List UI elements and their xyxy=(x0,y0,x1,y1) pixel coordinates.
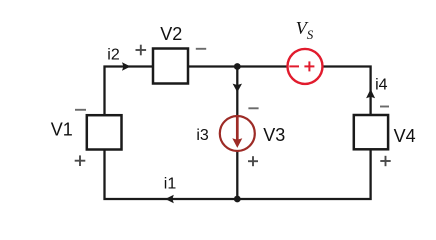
svg-text:i1: i1 xyxy=(164,175,177,192)
svg-text:V2: V2 xyxy=(160,24,182,44)
svg-text:V4: V4 xyxy=(394,126,416,146)
svg-text:V3: V3 xyxy=(263,125,285,145)
svg-text:V1: V1 xyxy=(51,120,73,140)
svg-text:i3: i3 xyxy=(196,127,209,144)
svg-text:i4: i4 xyxy=(375,77,388,94)
svg-text:i2: i2 xyxy=(107,47,120,64)
